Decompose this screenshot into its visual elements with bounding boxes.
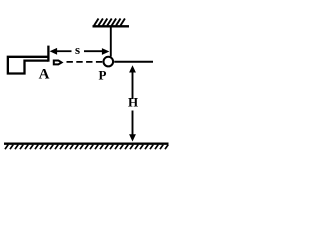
svg-text:s: s — [75, 42, 80, 57]
svg-text:P: P — [99, 67, 107, 82]
svg-text:A: A — [39, 67, 50, 83]
